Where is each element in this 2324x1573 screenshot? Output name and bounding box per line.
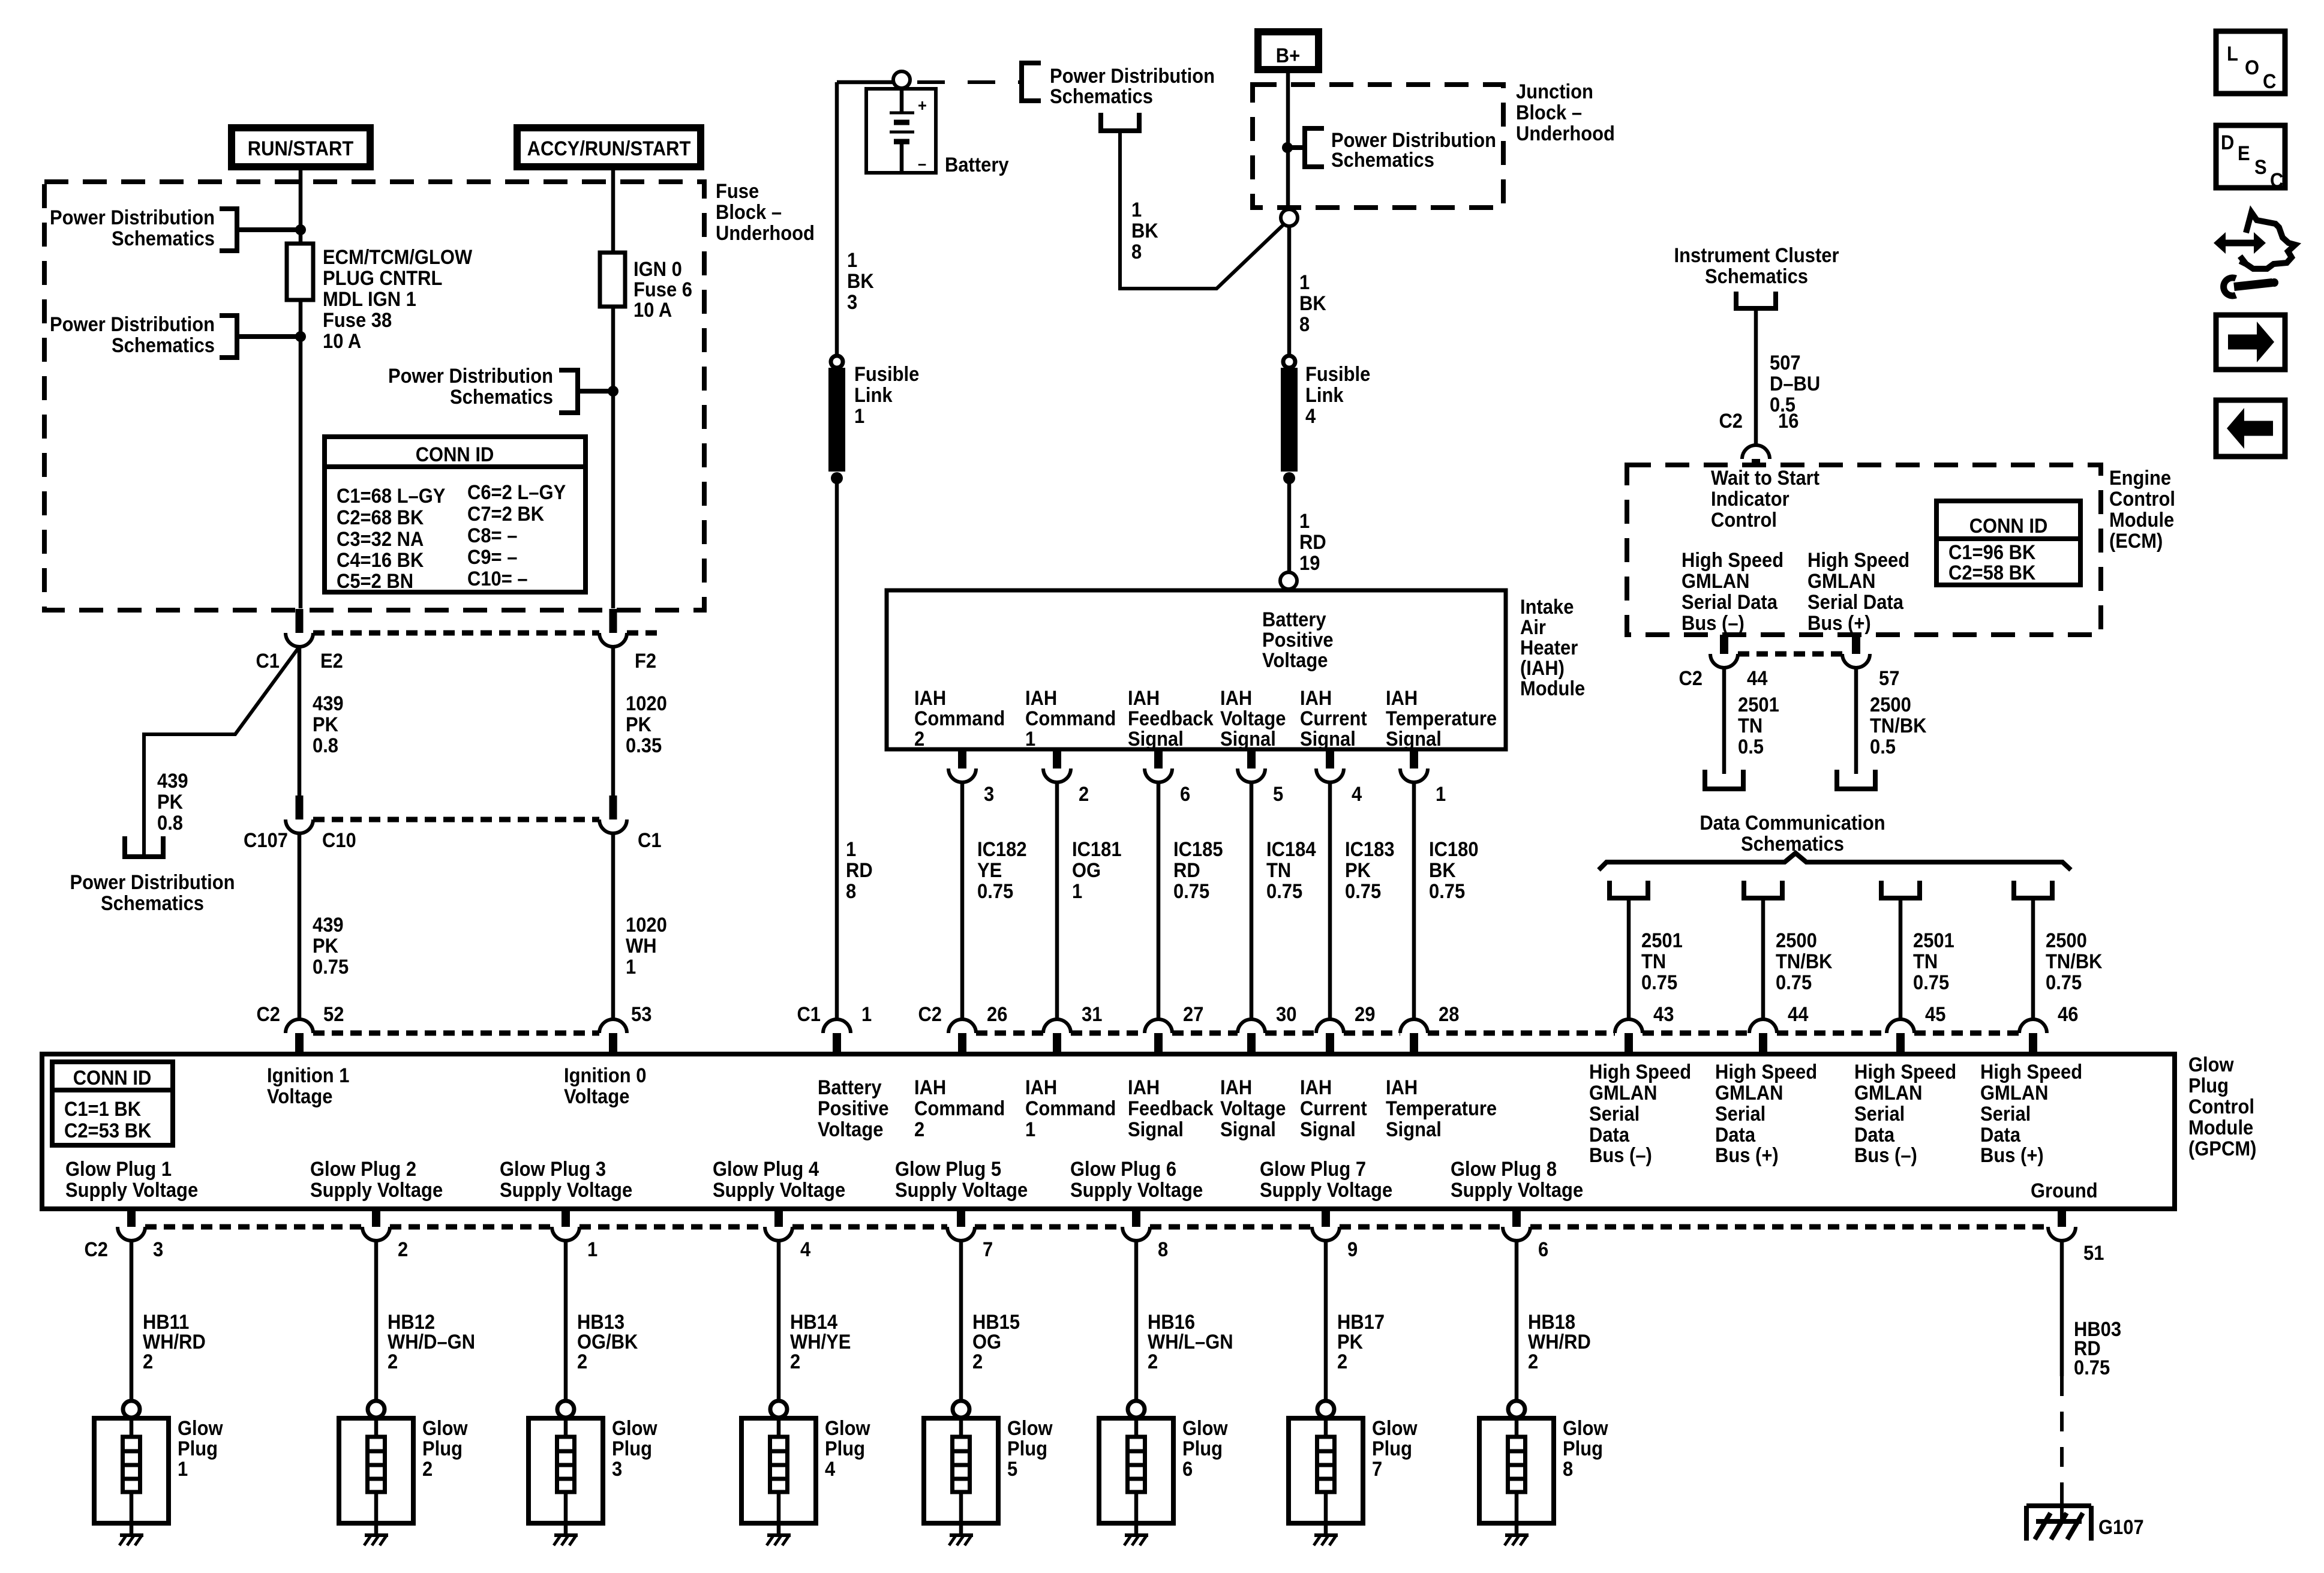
svg-text:5: 5	[1007, 1458, 1017, 1481]
svg-text:Power Distribution: Power Distribution	[388, 365, 553, 388]
svg-text:Serial: Serial	[1854, 1103, 1905, 1125]
svg-text:31: 31	[1082, 1003, 1102, 1026]
svg-text:53: 53	[631, 1003, 651, 1026]
svg-text:Serial: Serial	[1980, 1103, 2031, 1125]
svg-text:Signal: Signal	[1128, 1118, 1184, 1141]
svg-text:1: 1	[1436, 783, 1446, 806]
svg-text:F2: F2	[635, 650, 656, 673]
svg-text:Ground: Ground	[2031, 1179, 2098, 1202]
svg-text:Schematics: Schematics	[1050, 85, 1153, 108]
svg-text:Glow: Glow	[825, 1417, 870, 1440]
svg-text:Voltage: Voltage	[818, 1118, 883, 1141]
svg-text:19: 19	[1299, 552, 1320, 575]
svg-text:RD: RD	[846, 859, 873, 882]
svg-text:C8= –: C8= –	[467, 524, 517, 547]
svg-text:Data: Data	[1589, 1124, 1630, 1146]
svg-text:O: O	[2245, 56, 2259, 79]
svg-text:Supply Voltage: Supply Voltage	[310, 1179, 443, 1202]
svg-text:Engine: Engine	[2109, 467, 2171, 490]
svg-text:Data: Data	[1854, 1124, 1895, 1146]
svg-text:Glow: Glow	[422, 1417, 468, 1440]
svg-text:0.75: 0.75	[977, 880, 1013, 903]
svg-text:Link: Link	[854, 384, 893, 407]
svg-text:Signal: Signal	[1300, 1118, 1356, 1141]
svg-text:C2: C2	[84, 1238, 108, 1261]
svg-text:Supply Voltage: Supply Voltage	[500, 1179, 632, 1202]
svg-text:IAH: IAH	[1300, 1076, 1332, 1099]
svg-text:High Speed: High Speed	[1682, 549, 1783, 572]
svg-text:6: 6	[1180, 783, 1190, 806]
svg-text:1: 1	[1025, 1118, 1035, 1141]
svg-text:Underhood: Underhood	[1516, 122, 1615, 145]
svg-text:(IAH): (IAH)	[1520, 657, 1565, 680]
svg-text:Bus (–): Bus (–)	[1854, 1144, 1917, 1167]
svg-text:2: 2	[1079, 783, 1089, 806]
svg-text:TN: TN	[1738, 715, 1762, 737]
svg-text:2: 2	[914, 728, 924, 751]
svg-text:High Speed: High Speed	[1854, 1061, 1956, 1083]
svg-text:WH: WH	[626, 935, 657, 957]
svg-text:30: 30	[1276, 1003, 1296, 1026]
svg-text:PK: PK	[313, 713, 338, 736]
svg-text:RD: RD	[1173, 859, 1200, 882]
svg-text:Battery: Battery	[945, 154, 1009, 176]
svg-text:Power Distribution: Power Distribution	[50, 313, 215, 336]
svg-text:TN/BK: TN/BK	[2046, 950, 2103, 973]
svg-text:2501: 2501	[1913, 929, 1954, 952]
svg-text:TN/BK: TN/BK	[1776, 950, 1833, 973]
svg-text:C2: C2	[256, 1003, 280, 1026]
svg-text:1: 1	[847, 249, 857, 272]
svg-text:2: 2	[388, 1350, 398, 1373]
svg-text:Plug: Plug	[2188, 1074, 2229, 1097]
svg-text:Signal: Signal	[1386, 1118, 1442, 1141]
svg-text:IAH: IAH	[914, 687, 946, 710]
svg-text:S: S	[2254, 156, 2267, 179]
svg-text:ACCY/RUN/START: ACCY/RUN/START	[527, 137, 691, 160]
svg-text:IC185: IC185	[1173, 838, 1223, 861]
svg-text:2: 2	[398, 1238, 408, 1261]
svg-text:BK: BK	[1131, 220, 1158, 242]
svg-text:2500: 2500	[2046, 929, 2087, 952]
svg-text:IAH: IAH	[1220, 1076, 1252, 1099]
svg-text:WH/D–GN: WH/D–GN	[388, 1331, 475, 1353]
svg-text:Bus (+): Bus (+)	[1807, 612, 1871, 635]
svg-text:D: D	[2221, 131, 2234, 154]
svg-text:0.35: 0.35	[626, 734, 662, 757]
svg-text:Glow Plug 6: Glow Plug 6	[1070, 1158, 1176, 1181]
svg-text:Serial: Serial	[1715, 1103, 1765, 1125]
svg-text:44: 44	[1747, 667, 1767, 690]
svg-text:IAH: IAH	[1220, 687, 1252, 710]
svg-text:28: 28	[1439, 1003, 1459, 1026]
svg-text:Ignition 1: Ignition 1	[267, 1064, 349, 1087]
svg-text:Link: Link	[1305, 384, 1344, 407]
svg-text:C1: C1	[256, 650, 280, 673]
svg-text:1: 1	[1072, 880, 1082, 903]
svg-text:0.75: 0.75	[2074, 1356, 2110, 1379]
svg-text:Command: Command	[914, 707, 1005, 730]
svg-text:MDL IGN 1: MDL IGN 1	[323, 288, 416, 311]
svg-text:27: 27	[1183, 1003, 1203, 1026]
svg-text:4: 4	[800, 1238, 810, 1261]
svg-text:Fuse 38: Fuse 38	[323, 309, 392, 332]
svg-text:0.8: 0.8	[157, 812, 183, 834]
svg-text:8: 8	[1563, 1458, 1573, 1481]
svg-text:Block –: Block –	[716, 201, 782, 224]
svg-text:Serial Data: Serial Data	[1682, 591, 1778, 614]
svg-text:Fusible: Fusible	[854, 363, 919, 386]
svg-text:GMLAN: GMLAN	[1682, 570, 1749, 593]
svg-text:C7=2 BK: C7=2 BK	[467, 503, 545, 526]
svg-text:Feedback: Feedback	[1128, 1097, 1214, 1120]
svg-text:Power Distribution: Power Distribution	[50, 206, 215, 229]
svg-text:57: 57	[1879, 667, 1899, 690]
svg-text:C1: C1	[638, 829, 662, 852]
svg-text:Module: Module	[2109, 509, 2174, 532]
svg-text:TN: TN	[1913, 950, 1938, 973]
svg-text:Voltage: Voltage	[1220, 707, 1286, 730]
svg-text:Voltage: Voltage	[1220, 1097, 1286, 1120]
svg-text:Data: Data	[1980, 1124, 2021, 1146]
svg-text:Supply Voltage: Supply Voltage	[1070, 1179, 1203, 1202]
svg-text:Schematics: Schematics	[450, 386, 553, 409]
svg-text:Temperature: Temperature	[1386, 707, 1497, 730]
svg-text:High Speed: High Speed	[1807, 549, 1909, 572]
svg-text:Positive: Positive	[1262, 629, 1334, 652]
svg-text:0.75: 0.75	[1913, 971, 1949, 994]
svg-text:Glow: Glow	[612, 1417, 657, 1440]
svg-text:–: –	[918, 154, 926, 173]
svg-text:6: 6	[1182, 1458, 1193, 1481]
svg-text:Voltage: Voltage	[1262, 649, 1328, 672]
svg-text:PK: PK	[1345, 859, 1371, 882]
svg-text:Schematics: Schematics	[1705, 265, 1808, 288]
svg-text:GMLAN: GMLAN	[1807, 570, 1875, 593]
svg-text:9: 9	[1347, 1238, 1358, 1261]
svg-text:Wait to Start: Wait to Start	[1711, 467, 1819, 490]
svg-text:GMLAN: GMLAN	[1980, 1082, 2048, 1104]
svg-text:52: 52	[323, 1003, 344, 1026]
svg-text:Signal: Signal	[1220, 728, 1276, 751]
svg-text:TN: TN	[1266, 859, 1291, 882]
svg-text:43: 43	[1653, 1003, 1674, 1026]
svg-text:Supply Voltage: Supply Voltage	[65, 1179, 198, 1202]
svg-text:0.75: 0.75	[2046, 971, 2082, 994]
svg-text:26: 26	[987, 1003, 1007, 1026]
svg-text:Temperature: Temperature	[1386, 1097, 1497, 1120]
svg-text:Bus (–): Bus (–)	[1682, 612, 1744, 635]
svg-text:Data Communication: Data Communication	[1700, 812, 1885, 834]
svg-text:IGN 0: IGN 0	[633, 258, 682, 281]
svg-text:RUN/START: RUN/START	[248, 137, 354, 160]
svg-text:Heater: Heater	[1520, 637, 1578, 659]
svg-text:Plug: Plug	[1007, 1437, 1047, 1460]
svg-text:C2: C2	[1679, 667, 1703, 690]
svg-text:1: 1	[178, 1458, 188, 1481]
svg-text:Control: Control	[2109, 488, 2175, 511]
svg-text:C5=2 BN: C5=2 BN	[337, 570, 413, 593]
svg-text:High Speed: High Speed	[1715, 1061, 1817, 1083]
svg-text:Plug: Plug	[1563, 1437, 1603, 1460]
svg-text:Current: Current	[1300, 707, 1367, 730]
svg-text:Voltage: Voltage	[564, 1085, 629, 1108]
svg-text:2: 2	[1528, 1350, 1538, 1373]
svg-text:1020: 1020	[626, 914, 667, 936]
svg-text:0.5: 0.5	[1870, 736, 1896, 758]
svg-text:C10= –: C10= –	[467, 568, 528, 590]
svg-text:7: 7	[1372, 1458, 1382, 1481]
svg-text:Control: Control	[1711, 509, 1777, 532]
svg-text:ECM/TCM/GLOW: ECM/TCM/GLOW	[323, 246, 472, 269]
svg-text:(GPCM): (GPCM)	[2188, 1137, 2256, 1160]
svg-text:Glow Plug 2: Glow Plug 2	[310, 1158, 416, 1181]
svg-text:Intake: Intake	[1520, 596, 1574, 619]
svg-text:C2=68 BK: C2=68 BK	[337, 506, 424, 529]
svg-text:PK: PK	[157, 791, 183, 813]
svg-text:Battery: Battery	[818, 1076, 882, 1099]
svg-text:45: 45	[1925, 1003, 1945, 1026]
svg-text:Plug: Plug	[422, 1437, 463, 1460]
svg-text:8: 8	[846, 880, 856, 903]
svg-text:Serial: Serial	[1589, 1103, 1640, 1125]
svg-text:0.75: 0.75	[1429, 880, 1465, 903]
svg-text:0.5: 0.5	[1738, 736, 1764, 758]
svg-text:IC180: IC180	[1429, 838, 1479, 861]
svg-text:Current: Current	[1300, 1097, 1367, 1120]
svg-text:Serial Data: Serial Data	[1807, 591, 1904, 614]
svg-text:2: 2	[914, 1118, 924, 1141]
svg-text:Schematics: Schematics	[112, 227, 215, 250]
svg-text:IAH: IAH	[914, 1076, 946, 1099]
svg-text:Supply Voltage: Supply Voltage	[1451, 1179, 1583, 1202]
svg-text:0.75: 0.75	[1345, 880, 1381, 903]
svg-text:5: 5	[1273, 783, 1283, 806]
svg-text:Command: Command	[1025, 707, 1116, 730]
svg-text:1: 1	[846, 838, 856, 861]
svg-text:2: 2	[577, 1350, 587, 1373]
svg-text:G107: G107	[2098, 1516, 2144, 1539]
svg-text:OG: OG	[1072, 859, 1101, 882]
svg-text:RD: RD	[1299, 531, 1326, 554]
svg-text:Underhood: Underhood	[716, 222, 815, 245]
svg-text:Signal: Signal	[1220, 1118, 1276, 1141]
svg-text:PLUG CNTRL: PLUG CNTRL	[323, 267, 442, 290]
svg-text:Signal: Signal	[1300, 728, 1356, 751]
svg-text:4: 4	[825, 1458, 835, 1481]
svg-text:2500: 2500	[1870, 694, 1911, 716]
svg-text:PK: PK	[313, 935, 338, 957]
svg-text:Fuse: Fuse	[716, 180, 759, 203]
svg-text:PK: PK	[626, 713, 651, 736]
svg-text:Glow Plug 8: Glow Plug 8	[1451, 1158, 1557, 1181]
svg-text:IC182: IC182	[977, 838, 1027, 861]
svg-text:C1=68 L–GY: C1=68 L–GY	[337, 485, 446, 508]
svg-text:Power Distribution: Power Distribution	[1050, 65, 1215, 88]
svg-text:Supply Voltage: Supply Voltage	[713, 1179, 845, 1202]
svg-text:CONN ID: CONN ID	[73, 1067, 152, 1089]
svg-text:0.75: 0.75	[1266, 880, 1302, 903]
svg-text:2: 2	[972, 1350, 983, 1373]
svg-text:C6=2 L–GY: C6=2 L–GY	[467, 481, 566, 504]
svg-text:Supply Voltage: Supply Voltage	[895, 1179, 1028, 1202]
svg-text:WH/L–GN: WH/L–GN	[1148, 1331, 1233, 1353]
svg-text:IAH: IAH	[1386, 1076, 1418, 1099]
svg-text:IC181: IC181	[1072, 838, 1122, 861]
svg-text:High Speed: High Speed	[1589, 1061, 1691, 1083]
svg-text:IAH: IAH	[1386, 687, 1418, 710]
svg-text:Ignition 0: Ignition 0	[564, 1064, 646, 1087]
svg-text:IAH: IAH	[1025, 687, 1057, 710]
svg-text:1: 1	[626, 956, 636, 978]
svg-text:0.8: 0.8	[313, 734, 338, 757]
svg-text:439: 439	[313, 914, 344, 936]
svg-text:Glow: Glow	[2188, 1053, 2234, 1076]
svg-text:IAH: IAH	[1025, 1076, 1057, 1099]
svg-text:Glow: Glow	[178, 1417, 223, 1440]
svg-text:BK: BK	[847, 270, 874, 293]
svg-text:507: 507	[1770, 352, 1801, 374]
svg-text:Module: Module	[1520, 677, 1585, 700]
svg-text:C2: C2	[1719, 410, 1743, 433]
svg-text:Schematics: Schematics	[1741, 833, 1844, 855]
svg-text:Feedback: Feedback	[1128, 707, 1214, 730]
svg-text:Instrument Cluster: Instrument Cluster	[1674, 244, 1839, 267]
svg-text:GMLAN: GMLAN	[1715, 1082, 1783, 1104]
svg-text:Air: Air	[1520, 616, 1546, 639]
svg-text:1: 1	[587, 1238, 597, 1261]
svg-text:Junction: Junction	[1516, 80, 1593, 103]
svg-text:44: 44	[1788, 1003, 1808, 1026]
svg-text:1: 1	[1299, 510, 1310, 533]
svg-text:1: 1	[1025, 728, 1035, 751]
svg-text:IAH: IAH	[1300, 687, 1332, 710]
svg-text:Plug: Plug	[612, 1437, 652, 1460]
svg-text:10 A: 10 A	[323, 330, 361, 353]
svg-text:Glow Plug 4: Glow Plug 4	[713, 1158, 819, 1181]
svg-text:439: 439	[157, 770, 188, 792]
svg-text:Block –: Block –	[1516, 101, 1582, 124]
svg-text:0.75: 0.75	[1641, 971, 1677, 994]
svg-text:TN/BK: TN/BK	[1870, 715, 1927, 737]
svg-text:Glow: Glow	[1007, 1417, 1053, 1440]
svg-text:Glow Plug 7: Glow Plug 7	[1260, 1158, 1366, 1181]
svg-text:0.75: 0.75	[1776, 971, 1812, 994]
svg-text:High Speed: High Speed	[1980, 1061, 2082, 1083]
svg-text:3: 3	[984, 783, 994, 806]
svg-text:Plug: Plug	[1372, 1437, 1412, 1460]
svg-text:0.75: 0.75	[1173, 880, 1209, 903]
svg-text:Schematics: Schematics	[1331, 149, 1434, 172]
svg-text:Bus (+): Bus (+)	[1715, 1144, 1779, 1167]
svg-text:Signal: Signal	[1386, 728, 1442, 751]
svg-text:C4=16 BK: C4=16 BK	[337, 549, 424, 572]
svg-text:4: 4	[1305, 405, 1316, 428]
svg-text:Voltage: Voltage	[267, 1085, 332, 1108]
svg-text:C1=1 BK: C1=1 BK	[64, 1098, 142, 1121]
svg-text:Glow: Glow	[1372, 1417, 1418, 1440]
svg-text:8: 8	[1131, 241, 1142, 263]
svg-text:Glow: Glow	[1563, 1417, 1608, 1440]
svg-text:1: 1	[861, 1003, 872, 1026]
svg-text:C3=32 NA: C3=32 NA	[337, 528, 424, 551]
svg-text:51: 51	[2083, 1242, 2104, 1265]
svg-text:E2: E2	[320, 650, 343, 673]
svg-text:C2=53 BK: C2=53 BK	[64, 1119, 152, 1142]
svg-text:Glow Plug 5: Glow Plug 5	[895, 1158, 1001, 1181]
svg-text:2: 2	[1337, 1350, 1347, 1373]
svg-text:D–BU: D–BU	[1770, 373, 1820, 395]
svg-text:4: 4	[1352, 783, 1362, 806]
svg-text:C2=58 BK: C2=58 BK	[1948, 562, 2036, 584]
svg-text:CONN ID: CONN ID	[416, 443, 494, 466]
svg-text:439: 439	[313, 692, 344, 715]
svg-text:8: 8	[1158, 1238, 1168, 1261]
svg-text:E: E	[2238, 142, 2250, 165]
svg-text:GMLAN: GMLAN	[1854, 1082, 1922, 1104]
svg-text:3: 3	[153, 1238, 163, 1261]
svg-text:Fuse 6: Fuse 6	[633, 278, 692, 301]
svg-text:2: 2	[790, 1350, 800, 1373]
svg-text:L: L	[2227, 43, 2238, 65]
svg-text:Data: Data	[1715, 1124, 1756, 1146]
svg-text:Battery: Battery	[1262, 608, 1326, 631]
svg-text:3: 3	[847, 291, 857, 314]
svg-text:1020: 1020	[626, 692, 667, 715]
svg-text:Signal: Signal	[1128, 728, 1184, 751]
svg-text:16: 16	[1778, 410, 1798, 433]
svg-text:Supply Voltage: Supply Voltage	[1260, 1179, 1392, 1202]
svg-text:B+: B+	[1276, 44, 1300, 67]
svg-text:Schematics: Schematics	[101, 892, 204, 915]
svg-text:Glow Plug 3: Glow Plug 3	[500, 1158, 606, 1181]
svg-text:C1: C1	[797, 1003, 821, 1026]
svg-text:BK: BK	[1299, 292, 1326, 315]
svg-text:Indicator: Indicator	[1711, 488, 1789, 511]
svg-text:Power Distribution: Power Distribution	[70, 871, 235, 894]
svg-text:10 A: 10 A	[633, 299, 672, 322]
svg-text:Glow: Glow	[1182, 1417, 1228, 1440]
svg-text:2501: 2501	[1738, 694, 1779, 716]
svg-text:IAH: IAH	[1128, 687, 1160, 710]
svg-text:C107: C107	[244, 829, 288, 852]
svg-text:Bus (–): Bus (–)	[1589, 1144, 1652, 1167]
svg-text:1: 1	[854, 405, 864, 428]
svg-text:GMLAN: GMLAN	[1589, 1082, 1657, 1104]
svg-text:C2: C2	[918, 1003, 942, 1026]
svg-text:Plug: Plug	[825, 1437, 865, 1460]
svg-text:Command: Command	[1025, 1097, 1116, 1120]
svg-text:C: C	[2270, 169, 2283, 192]
svg-text:C: C	[2263, 70, 2276, 93]
svg-text:8: 8	[1299, 313, 1310, 336]
svg-text:Glow Plug 1: Glow Plug 1	[65, 1158, 172, 1181]
svg-text:Plug: Plug	[178, 1437, 218, 1460]
svg-text:2501: 2501	[1641, 929, 1683, 952]
svg-text:+: +	[918, 96, 927, 115]
svg-text:1: 1	[1131, 199, 1142, 221]
svg-text:Command: Command	[914, 1097, 1005, 1120]
svg-text:6: 6	[1538, 1238, 1548, 1261]
svg-text:(ECM): (ECM)	[2109, 530, 2163, 553]
svg-text:C10: C10	[322, 829, 356, 852]
svg-text:Bus (+): Bus (+)	[1980, 1144, 2044, 1167]
svg-text:1: 1	[1299, 271, 1310, 294]
svg-text:BK: BK	[1429, 859, 1456, 882]
svg-text:Module: Module	[2188, 1116, 2253, 1139]
svg-text:C9= –: C9= –	[467, 546, 517, 569]
svg-text:46: 46	[2058, 1003, 2078, 1026]
